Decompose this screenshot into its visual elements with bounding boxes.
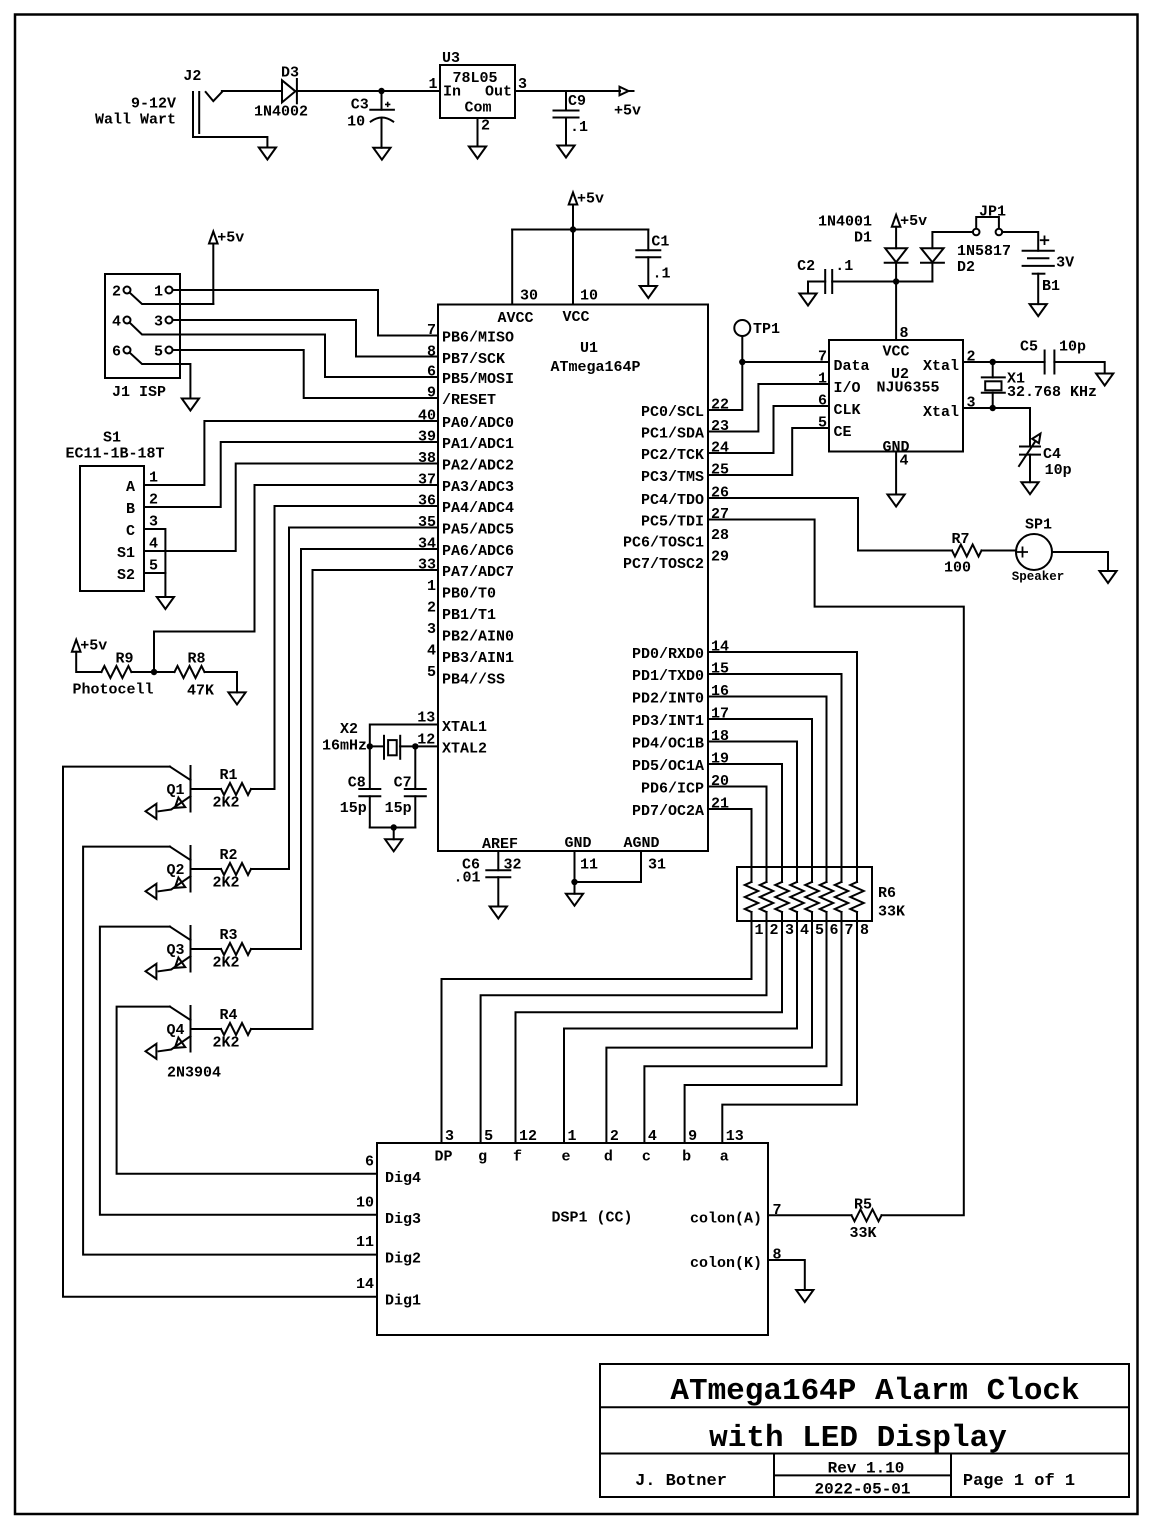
resistor R6 element 1: [745, 882, 758, 912]
wire R9 to node: [131, 671, 174, 673]
svg-text:R3: R3: [219, 927, 237, 944]
wire J1 pin 3 SCK to U1 PB7: [173, 320, 439, 357]
svg-text:AGND: AGND: [623, 835, 659, 852]
wire U1 XTAL1 to crystal: [370, 725, 438, 747]
svg-text:PD4/OC1B: PD4/OC1B: [632, 736, 704, 753]
svg-text:R9: R9: [115, 651, 133, 668]
svg-text:47K: 47K: [187, 683, 214, 700]
svg-text:7: 7: [818, 349, 827, 366]
display DSP1 (CC): [377, 1143, 768, 1335]
svg-text:colon(K): colon(K): [690, 1255, 762, 1272]
speaker SP1: [1016, 534, 1052, 570]
svg-text:g: g: [478, 1149, 487, 1166]
svg-text:SP1: SP1: [1025, 517, 1052, 534]
test point TP1: [734, 320, 750, 336]
svg-text:PB6/MISO: PB6/MISO: [442, 330, 514, 347]
svg-text:PA2/ADC2: PA2/ADC2: [442, 458, 514, 475]
svg-text:.1: .1: [653, 266, 671, 283]
svg-text:with LED Display: with LED Display: [709, 1421, 1007, 1456]
svg-text:PA5/ADC5: PA5/ADC5: [442, 522, 514, 539]
wire Q1 collector to display digit: [63, 767, 377, 1297]
svg-text:2: 2: [112, 284, 121, 301]
svg-text:U1: U1: [580, 340, 598, 357]
node junction D1/D2/C2: [893, 278, 899, 284]
ground: [490, 907, 507, 919]
svg-text:B1: B1: [1042, 278, 1060, 295]
svg-text:PA7/ADC7: PA7/ADC7: [442, 564, 514, 581]
resistor R6 element 6: [820, 882, 833, 912]
resistor R6 element 7: [835, 882, 848, 912]
svg-text:6: 6: [830, 922, 839, 939]
svg-text:3: 3: [445, 1128, 454, 1145]
svg-text:DSP1 (CC): DSP1 (CC): [551, 1210, 632, 1227]
svg-text:Q1: Q1: [166, 782, 184, 799]
wire R6 pin 7 to display: [685, 912, 842, 1143]
svg-text:PA3/ADC3: PA3/ADC3: [442, 479, 514, 496]
svg-text:Q2: Q2: [166, 862, 184, 879]
capacitor C7 15p: [414, 746, 416, 789]
wire J1 pin 4 MOSI to U1 PB5: [130, 323, 439, 378]
svg-text:9: 9: [688, 1128, 697, 1145]
svg-text:1: 1: [149, 470, 158, 487]
svg-text:7: 7: [845, 922, 854, 939]
resistor R5 33K: [852, 1209, 882, 1221]
svg-text:6: 6: [112, 344, 121, 361]
svg-text:28: 28: [711, 527, 729, 544]
wire node to U1 PA3: [154, 485, 438, 672]
svg-text:CLK: CLK: [834, 402, 861, 419]
wire R6 pin 8 to display: [722, 912, 857, 1143]
wire U1 pin 15 PD1 to R6 pin 7: [708, 674, 842, 882]
jumper JP1: [973, 229, 980, 236]
svg-text:33K: 33K: [849, 1225, 876, 1242]
svg-text:PC1/SDA: PC1/SDA: [641, 426, 704, 443]
wire S1 C to ground: [144, 529, 165, 597]
svg-text:PC0/SCL: PC0/SCL: [641, 404, 704, 421]
svg-text:2: 2: [427, 600, 436, 617]
ground: [1096, 374, 1113, 386]
svg-text:R4: R4: [219, 1007, 237, 1024]
svg-text:1N4001: 1N4001: [818, 214, 872, 231]
svg-text:8: 8: [860, 922, 869, 939]
svg-text:2: 2: [770, 922, 779, 939]
transistor Q1 2N3904: [190, 766, 192, 812]
wire R6 pin 1 to display: [442, 912, 752, 1143]
wire U1 PC1 to U2 I/O: [708, 384, 829, 432]
resistor R9 Photocell: [101, 666, 131, 678]
svg-text:S2: S2: [117, 567, 135, 584]
svg-text:PC7/TOSC2: PC7/TOSC2: [623, 556, 704, 573]
wire R6 pin 6 to display: [644, 912, 826, 1143]
svg-text:4: 4: [427, 643, 436, 660]
pin 2 circle: [124, 287, 131, 294]
wire S1 A to U1 PA0: [144, 421, 438, 485]
transistor Q2 2N3904: [190, 846, 192, 892]
resistor R4 2K2: [251, 1028, 313, 1030]
svg-text:32.768 KHz: 32.768 KHz: [1007, 384, 1097, 401]
crystal X2 16mHz: [370, 745, 384, 747]
svg-text:11: 11: [580, 857, 598, 874]
svg-text:Rev 1.10: Rev 1.10: [828, 1460, 905, 1478]
resistor R6 element 4: [790, 882, 803, 912]
svg-text:In: In: [443, 84, 461, 101]
ground: [566, 894, 583, 906]
svg-text:10: 10: [347, 114, 365, 131]
svg-text:PD7/OC2A: PD7/OC2A: [632, 803, 704, 820]
wire U1 PC3 to U2 CE: [708, 428, 829, 475]
ground: [469, 147, 486, 159]
capacitor C6 .01 on AREF pin 32: [497, 851, 499, 870]
IC U1 ATmega164P: [438, 305, 708, 852]
wire J1 pin 5 RESET to U1 /RESET: [173, 350, 439, 398]
svg-text:TP1: TP1: [753, 321, 780, 338]
wire Q4 collector to display digit: [117, 1007, 377, 1174]
capacitor C3 10 (polarized): [381, 91, 383, 110]
ground: [1099, 571, 1116, 583]
svg-text:10: 10: [356, 1194, 374, 1211]
svg-text:39: 39: [418, 429, 436, 446]
title block: [600, 1364, 1129, 1497]
svg-text:3: 3: [149, 514, 158, 531]
wire U1 PC2 to U2 CLK: [708, 406, 829, 453]
svg-text:+5v: +5v: [217, 230, 244, 247]
svg-text:b: b: [682, 1149, 691, 1166]
svg-text:5: 5: [149, 558, 158, 575]
emitter ground: [146, 964, 157, 979]
svg-text:Com: Com: [464, 100, 491, 117]
svg-text:9: 9: [427, 385, 436, 402]
ground: [640, 286, 657, 298]
wire U1 Q1 base net from PA port: [275, 506, 439, 789]
node junction ground net: [391, 824, 397, 830]
svg-text:e: e: [561, 1149, 570, 1166]
wire U3 Out to +5v arrow: [515, 90, 620, 92]
wire D3 to U3 In: [297, 90, 440, 92]
svg-text:Q4: Q4: [166, 1022, 184, 1039]
svg-text:R7: R7: [951, 531, 969, 548]
svg-text:.01: .01: [453, 870, 480, 887]
svg-text:2: 2: [149, 492, 158, 509]
svg-text:c: c: [642, 1149, 651, 1166]
svg-text:38: 38: [418, 450, 436, 467]
wire speaker to ground: [1052, 552, 1108, 571]
wire Q3 collector to display digit: [100, 927, 377, 1215]
regulator U3 78L05: [440, 65, 515, 118]
switch S1 EC11-1B-18T rotary encoder: [80, 466, 144, 591]
svg-text:14: 14: [356, 1276, 374, 1293]
svg-text:1: 1: [427, 578, 436, 595]
resistor R6 element 5: [805, 882, 818, 912]
resistor R2 2K2: [251, 868, 289, 870]
svg-text:NJU6355: NJU6355: [876, 380, 939, 397]
node junction XTAL2/C7: [412, 743, 418, 749]
svg-text:/RESET: /RESET: [442, 392, 496, 409]
node junction at C3: [378, 88, 384, 94]
svg-text:D3: D3: [281, 65, 299, 82]
wire rail to AVCC pin 30: [512, 229, 648, 231]
svg-text:PB4//SS: PB4//SS: [442, 672, 505, 689]
wire U1 pin 17 PD3 to R6 pin 5: [708, 719, 812, 882]
capacitor C1 .1: [647, 230, 649, 251]
wire R8 to ground: [205, 672, 238, 692]
svg-text:EC11-1B-18T: EC11-1B-18T: [65, 446, 164, 463]
wire TP1 to Data net: [741, 336, 743, 362]
svg-text:+5v: +5v: [80, 638, 107, 655]
wire U1 pin 18 PD4 to R6 pin 4: [708, 742, 797, 883]
ground: [888, 495, 905, 507]
wire U1 Q2 base net from PA port: [289, 528, 438, 870]
wire R5 to U1 PC5 net: [708, 520, 964, 1216]
wire C2 to D1/D2 net: [832, 281, 932, 283]
wire U1 pin 20 PD6 to R6 pin 2: [708, 787, 767, 883]
resistor R6 element 8: [850, 882, 863, 912]
svg-text:f: f: [513, 1149, 522, 1166]
svg-text:PA6/ADC6: PA6/ADC6: [442, 543, 514, 560]
svg-text:PD5/OC1A: PD5/OC1A: [632, 758, 704, 775]
wire R6 pin 3 to display: [516, 912, 783, 1143]
+5v output arrow: [620, 87, 634, 96]
ground: [799, 294, 816, 306]
svg-text:ATmega164P: ATmega164P: [550, 359, 640, 376]
svg-text:100: 100: [944, 560, 971, 577]
diode D2 1N5817: [931, 263, 933, 282]
wire D1 to U2 VCC pin 8: [895, 263, 897, 340]
svg-text:32: 32: [504, 857, 522, 874]
capacitor C5 10p: [993, 361, 1045, 363]
pin 5 circle: [166, 347, 173, 354]
svg-text:Data: Data: [834, 358, 870, 375]
svg-text:I/O: I/O: [834, 380, 861, 397]
svg-text:12: 12: [519, 1128, 537, 1145]
wire J2 tip to D3: [222, 90, 282, 92]
svg-text:8: 8: [900, 325, 909, 342]
wire U1 PC0 to U2 Data: [708, 362, 829, 410]
svg-text:C2: C2: [797, 258, 815, 275]
node Xtal top junction: [992, 362, 994, 377]
node junction photocell divider: [151, 669, 157, 675]
svg-text:X2: X2: [340, 721, 358, 738]
wire +5v to J1 pin 2: [212, 244, 214, 305]
wire U1 XTAL2 to crystal: [415, 745, 438, 747]
svg-text:1N4002: 1N4002: [254, 104, 308, 121]
wire JP1 to battery B1: [1002, 232, 1038, 251]
svg-text:1: 1: [154, 284, 163, 301]
diode D1 1N4001: [895, 227, 897, 249]
svg-text:Dig1: Dig1: [385, 1293, 421, 1310]
pin 1 circle: [166, 287, 173, 294]
svg-text:1: 1: [818, 371, 827, 388]
svg-text:R2: R2: [219, 847, 237, 864]
capacitor C8 15p: [369, 746, 371, 789]
svg-text:B: B: [126, 501, 135, 518]
svg-text:5: 5: [427, 664, 436, 681]
svg-text:8: 8: [427, 344, 436, 361]
svg-text:A: A: [126, 479, 135, 496]
svg-text:5: 5: [154, 344, 163, 361]
svg-text:15p: 15p: [385, 800, 412, 817]
svg-text:Q3: Q3: [166, 942, 184, 959]
svg-text:Wall Wart: Wall Wart: [95, 112, 176, 129]
svg-text:2K2: 2K2: [212, 1035, 239, 1052]
svg-text:1: 1: [755, 922, 764, 939]
svg-text:ATmega164P Alarm Clock: ATmega164P Alarm Clock: [670, 1374, 1079, 1409]
svg-text:4: 4: [900, 453, 909, 470]
wire U1 Q3 base net from PA port: [301, 549, 438, 949]
ground: [1021, 482, 1038, 494]
wire U3 Com pin 2 to ground: [477, 118, 479, 147]
svg-text:PB1/T1: PB1/T1: [442, 607, 496, 624]
node junction TP1/Data: [739, 359, 745, 365]
svg-text:4: 4: [648, 1128, 657, 1145]
wire S1 pin4 to U1 PA2: [144, 464, 438, 552]
pin 4 circle: [124, 317, 131, 324]
svg-text:PB5/MOSI: PB5/MOSI: [442, 371, 514, 388]
svg-text:C7: C7: [394, 775, 412, 792]
svg-text:d: d: [604, 1149, 613, 1166]
svg-text:R5: R5: [854, 1197, 872, 1214]
svg-text:PC5/TDI: PC5/TDI: [641, 514, 704, 531]
svg-text:PD6/ICP: PD6/ICP: [641, 781, 704, 798]
pin 3 circle: [166, 317, 173, 324]
IC U2 NJU6355 RTC: [829, 340, 963, 452]
wire U1 pin 21 PD7 to R6 pin 1: [708, 809, 752, 882]
svg-text:1: 1: [568, 1128, 577, 1145]
svg-text:2K2: 2K2: [212, 875, 239, 892]
svg-text:37: 37: [418, 472, 436, 489]
svg-text:29: 29: [711, 549, 729, 566]
+5v arrow above U1: [569, 193, 578, 205]
svg-text:PD1/TXD0: PD1/TXD0: [632, 668, 704, 685]
svg-text:3V: 3V: [1056, 255, 1074, 272]
svg-text:D2: D2: [957, 259, 975, 276]
+5v arrow for J1 pin 2: [209, 232, 218, 244]
svg-text:GND: GND: [564, 835, 591, 852]
battery B1 3V: [1023, 250, 1054, 252]
node Xtal bottom junction: [963, 407, 993, 409]
svg-text:AVCC: AVCC: [497, 310, 533, 327]
svg-text:C: C: [126, 523, 135, 540]
wire colon(K) to ground: [768, 1260, 805, 1290]
svg-text:J1 ISP: J1 ISP: [112, 384, 166, 401]
svg-text:3: 3: [785, 922, 794, 939]
svg-text:6: 6: [818, 393, 827, 410]
svg-text:C9: C9: [568, 93, 586, 110]
wire S1 S2 to ground net: [144, 572, 165, 574]
svg-text:J. Botner: J. Botner: [635, 1472, 727, 1491]
svg-text:40: 40: [418, 408, 436, 425]
svg-text:Xtal: Xtal: [923, 358, 959, 375]
svg-text:+5v: +5v: [614, 103, 641, 120]
emitter ground: [146, 884, 157, 899]
node junction XTAL1/C8: [367, 743, 373, 749]
svg-text:5: 5: [484, 1128, 493, 1145]
svg-text:PD0/RXD0: PD0/RXD0: [632, 646, 704, 663]
svg-text:5: 5: [818, 415, 827, 432]
svg-text:+5v: +5v: [577, 191, 604, 208]
trimmer capacitor C4 10p: [993, 408, 1030, 447]
svg-text:30: 30: [520, 288, 538, 305]
svg-text:DP: DP: [434, 1149, 452, 1166]
svg-text:JP1: JP1: [979, 203, 1006, 220]
wire C8/C7 to ground: [370, 827, 416, 829]
wire J2 sleeve to ground: [193, 137, 267, 148]
svg-text:Out: Out: [485, 84, 512, 101]
svg-text:1: 1: [428, 76, 437, 93]
svg-text:Photocell: Photocell: [73, 682, 154, 699]
ground: [1030, 304, 1047, 316]
svg-text:U3: U3: [442, 50, 460, 67]
ground: [182, 399, 199, 411]
wire B1 to ground: [1037, 274, 1039, 304]
wire U1 GND pin 11 to ground: [574, 851, 576, 882]
svg-text:9-12V: 9-12V: [131, 96, 176, 113]
node junction +5v rail: [570, 226, 576, 232]
wire +5v to R9: [76, 652, 101, 672]
svg-text:15p: 15p: [340, 800, 367, 817]
svg-text:16mHz: 16mHz: [322, 738, 367, 755]
svg-text:2: 2: [481, 118, 490, 135]
resistor network R6 33K body: [737, 867, 872, 921]
svg-text:XTAL1: XTAL1: [442, 719, 487, 736]
capacitor C2 .1: [807, 282, 809, 294]
svg-text:AREF: AREF: [482, 836, 518, 853]
wire C3 to ground: [381, 119, 383, 148]
svg-text:2022-05-01: 2022-05-01: [814, 1481, 910, 1499]
emitter ground: [146, 1044, 157, 1059]
wire U2 GND pin 4 to ground: [895, 452, 897, 495]
wire +5v to AVCC/VCC rail: [572, 205, 574, 305]
svg-text:PA0/ADC0: PA0/ADC0: [442, 415, 514, 432]
wire U1 pin 14 PD0 to R6 pin 8: [708, 652, 857, 882]
svg-text:.1: .1: [835, 258, 853, 275]
svg-text:Speaker: Speaker: [1012, 570, 1065, 584]
capacitor C9 .1: [565, 91, 567, 111]
svg-text:33K: 33K: [878, 904, 905, 921]
svg-text:7: 7: [427, 322, 436, 339]
svg-text:Dig4: Dig4: [385, 1170, 421, 1187]
wire J1 pin 6 to ground: [130, 353, 191, 399]
svg-text:PD3/INT1: PD3/INT1: [632, 713, 704, 730]
svg-text:10p: 10p: [1045, 462, 1072, 479]
svg-text:XTAL2: XTAL2: [442, 741, 487, 758]
svg-text:Page 1 of 1: Page 1 of 1: [963, 1472, 1075, 1491]
svg-text:13: 13: [726, 1128, 744, 1145]
svg-text:PB2/AIN0: PB2/AIN0: [442, 629, 514, 646]
svg-text:a: a: [720, 1149, 729, 1166]
+5v arrow for photocell: [72, 640, 81, 652]
resistor R6 element 3: [775, 882, 788, 912]
svg-text:6: 6: [427, 364, 436, 381]
wire R6 pin 2 to display: [481, 912, 767, 1143]
svg-text:S1: S1: [117, 545, 135, 562]
svg-text:R1: R1: [219, 767, 237, 784]
svg-text:C3: C3: [351, 97, 369, 114]
svg-text:C4: C4: [1043, 446, 1061, 463]
svg-text:VCC: VCC: [882, 344, 909, 361]
ground: [557, 146, 574, 158]
ground: [228, 692, 245, 704]
svg-text:10: 10: [580, 288, 598, 305]
wire J1 pin 1 MISO to U1 PB6: [173, 290, 439, 336]
svg-text:3: 3: [154, 314, 163, 331]
ground: [373, 148, 390, 160]
svg-text:C8: C8: [348, 775, 366, 792]
svg-text:C1: C1: [651, 233, 669, 250]
svg-text:11: 11: [356, 1234, 374, 1251]
resistor R8 47K: [175, 666, 205, 678]
svg-text:PC4/TDO: PC4/TDO: [641, 492, 704, 509]
+5v arrow for RTC supply: [892, 215, 901, 227]
